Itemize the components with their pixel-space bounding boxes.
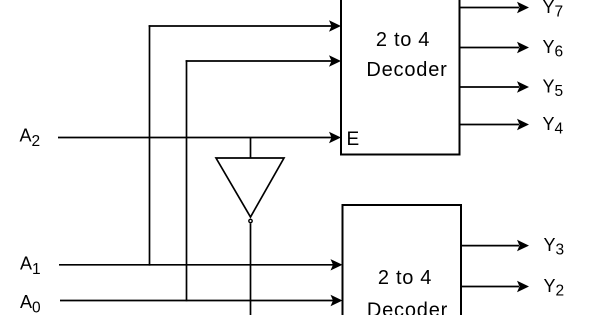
arrowhead into E pin of U1	[329, 132, 341, 143]
wire output Y2 from U2	[461, 286, 519, 288]
arrowhead Y7	[517, 2, 529, 13]
wire A2 horizontal to E input of U1	[58, 137, 332, 139]
arrowhead A0 into U2	[331, 295, 343, 306]
svg-text:2 to 4: 2 to 4	[376, 29, 430, 51]
wire output Y6 from U1	[460, 47, 520, 49]
arrowhead A0 branch into U1	[329, 55, 341, 66]
arrowhead A1 branch into U1	[329, 20, 341, 31]
arrowhead A1 into U2	[331, 259, 343, 270]
decoder U1 (top 2-to-4 decoder box)	[341, 0, 460, 155]
wire inverter input stub from A2 line down to inverter	[250, 138, 252, 160]
svg-text:E: E	[347, 129, 360, 150]
svg-text:Decoder: Decoder	[366, 59, 447, 81]
arrowhead Y4	[517, 119, 529, 130]
wire A1 horizontal into U2	[59, 264, 334, 266]
wire A0 horizontal into U2	[60, 300, 334, 302]
arrowhead Y6	[517, 42, 529, 53]
wire branch A1 vertical riser (junction on A1 line up to y=26)	[149, 25, 151, 265]
wire branch A1 horizontal into U1 upper input	[149, 25, 332, 27]
wire output Y7 from U1	[460, 7, 520, 9]
decoder U2 (bottom 2-to-4 decoder box)	[343, 205, 462, 315]
wire output Y4 from U1	[460, 124, 520, 126]
svg-text:Decoder: Decoder	[367, 300, 448, 315]
arrowhead Y2	[517, 281, 529, 292]
inverter U3 (NOT gate triangle)	[216, 158, 284, 217]
svg-text:2 to 4: 2 to 4	[378, 267, 432, 289]
wire output Y5 from U1	[460, 86, 520, 88]
inverter U3 bubble	[249, 219, 252, 222]
wire branch A0 vertical riser (junction on A0 line up to y=61)	[186, 60, 188, 301]
arrowhead Y5	[517, 81, 529, 92]
wire inverter output down to E of U2 (off-canvas)	[250, 223, 252, 315]
arrowhead Y3	[517, 240, 529, 251]
wire branch A0 horizontal into U1 lower input	[186, 60, 332, 62]
wire output Y3 from U2	[461, 245, 519, 247]
